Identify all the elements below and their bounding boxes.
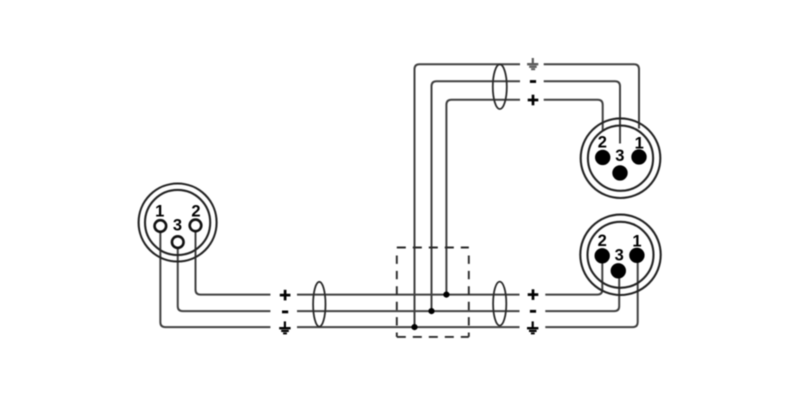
top right XLR male connector outer circle	[581, 118, 661, 198]
wire: left XLR pin3 to - row	[178, 249, 271, 311]
wire: - row middle segment	[297, 310, 520, 312]
top right XLR male connector inner circle	[588, 126, 653, 191]
bottom right XLR pin 3 (filled)	[611, 263, 626, 278]
top right XLR pin 1 (filled)	[631, 149, 646, 164]
symbol gnd top row	[527, 58, 538, 69]
symbol + top row	[528, 95, 539, 106]
left XLR female connector outer circle	[139, 184, 217, 262]
left XLR female connector inner circle	[145, 190, 210, 255]
splitter junction dashed box	[397, 248, 469, 337]
top right XLR pin 2 (filled)	[595, 150, 610, 165]
cable ellipse bottom-right	[493, 282, 506, 326]
left XLR pin 3 (open)	[172, 236, 184, 248]
symbol + right row	[528, 289, 539, 300]
cable ellipse top	[493, 64, 507, 109]
wire: top + row right segment into top XLR pin2	[544, 100, 603, 131]
junction dot -	[428, 308, 434, 314]
svg-text:2: 2	[191, 203, 200, 221]
wire: + row right segment up into bottom XLR pin2	[545, 258, 602, 295]
junction dot gnd	[411, 324, 417, 330]
symbol - top row	[530, 80, 536, 83]
svg-text:2: 2	[598, 232, 607, 250]
bottom right XLR male connector inner circle	[588, 222, 654, 288]
wire: + row middle segment	[297, 294, 520, 296]
wire: top gnd row right segment into top XLR pin1	[544, 64, 639, 128]
left XLR pin 1 (open)	[155, 220, 167, 232]
bottom right XLR pin 1 (filled)	[629, 248, 644, 263]
wire: left XLR pin2 to + row	[196, 232, 271, 295]
top right XLR pin 3 (filled)	[612, 165, 627, 180]
wire: gnd row right segment up into bottom XLR pin1	[545, 258, 637, 327]
wire: - branch up from junction to top row left segment	[432, 81, 521, 311]
symbol - right row	[530, 310, 536, 313]
svg-text:1: 1	[635, 134, 644, 152]
symbol - left row	[282, 310, 288, 313]
bottom right XLR male connector outer circle	[580, 215, 660, 295]
svg-text:3: 3	[615, 147, 624, 165]
wire: + branch up from junction to top row left segment	[446, 100, 520, 295]
left XLR pin 2 (open)	[190, 220, 202, 232]
junction dot +	[443, 292, 449, 298]
symbol gnd right row	[527, 321, 538, 333]
wire: - row right segment up into bottom XLR pin3	[545, 274, 619, 311]
symbol + left row	[280, 290, 291, 301]
bottom right XLR pin 2 (filled)	[595, 248, 610, 263]
svg-text:1: 1	[632, 232, 641, 250]
wire: gnd branch up from junction to top row left segment	[415, 64, 521, 327]
wire: gnd row middle segment	[297, 326, 520, 328]
svg-text:1: 1	[155, 203, 164, 221]
symbol gnd left row	[279, 321, 290, 333]
wire: top - row right segment into top XLR pin3	[544, 81, 620, 143]
svg-text:3: 3	[173, 216, 182, 234]
cable ellipse bottom-left	[313, 282, 325, 327]
svg-text:2: 2	[598, 134, 607, 152]
svg-text:3: 3	[615, 247, 624, 265]
wire: left XLR pin1 to gnd row	[160, 232, 270, 328]
